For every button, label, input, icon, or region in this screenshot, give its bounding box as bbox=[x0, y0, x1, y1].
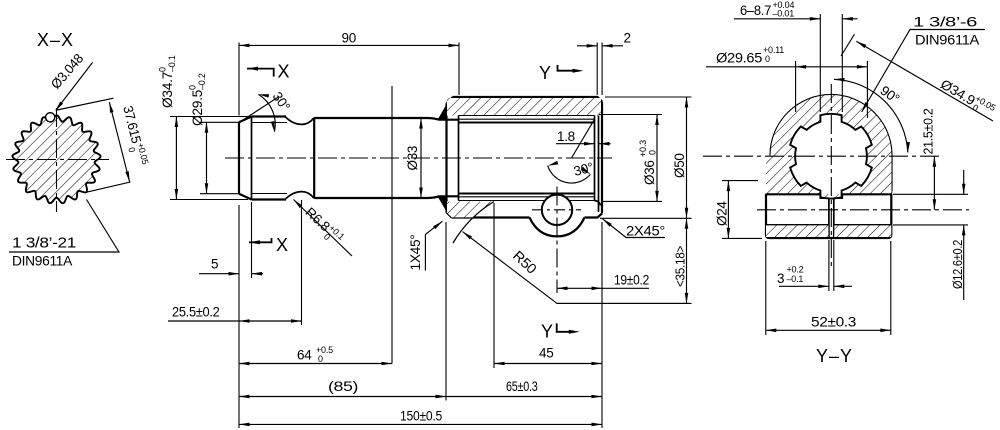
dim dia34.9 bbox=[841, 34, 855, 56]
svg-text:25.5±0.2: 25.5±0.2 bbox=[172, 305, 220, 320]
bore bottom fillet to end face bbox=[595, 201, 601, 206]
dim 150 bbox=[239, 423, 602, 425]
hatch bottom band (bounded by R50 arc) bbox=[447, 202, 494, 218]
svg-text:–0.1: –0.1 bbox=[167, 55, 177, 72]
ext lines main bbox=[239, 43, 602, 116]
svg-text:X: X bbox=[276, 235, 288, 255]
svg-text:X: X bbox=[278, 62, 290, 82]
cross hole bbox=[542, 195, 572, 225]
dim dia29.65 bbox=[796, 61, 868, 118]
svg-text:21.5±0.2: 21.5±0.2 bbox=[922, 108, 936, 154]
svg-text:65±0.3: 65±0.3 bbox=[506, 379, 538, 394]
dim 25.5 bbox=[168, 320, 302, 322]
svg-text:(85): (85) bbox=[328, 379, 358, 394]
svg-text:Ø24: Ø24 bbox=[715, 201, 730, 226]
svg-text:<35.18>: <35.18> bbox=[674, 246, 688, 287]
main centerline bbox=[225, 157, 612, 159]
bore end internal face bbox=[594, 116, 596, 201]
1.8 dim bbox=[556, 143, 611, 145]
30 deg chamfer indicator (left) bbox=[239, 97, 280, 124]
30 deg cone line bbox=[572, 119, 595, 158]
dim 52 bbox=[766, 241, 891, 335]
dim dia34.7 left bbox=[170, 117, 248, 200]
svg-text:Ø33: Ø33 bbox=[405, 146, 420, 171]
svg-text:DIN9611A: DIN9611A bbox=[12, 254, 72, 269]
dim 3 slit bbox=[829, 240, 834, 291]
svg-text:X–X: X–X bbox=[37, 30, 74, 50]
Y-Y centerlines bbox=[703, 155, 941, 157]
flange left face bbox=[445, 103, 447, 213]
svg-text:Ø34.7: Ø34.7 bbox=[160, 72, 175, 108]
shaft spline section outline bbox=[238, 122, 240, 193]
svg-text:2: 2 bbox=[624, 31, 631, 46]
svg-text:Y: Y bbox=[539, 63, 551, 83]
R50 leader bbox=[463, 232, 690, 304]
spline bore lines bbox=[459, 116, 595, 201]
section mark X bottom bbox=[249, 238, 272, 242]
svg-text:+0.2: +0.2 bbox=[787, 265, 804, 275]
svg-text:+0.3: +0.3 bbox=[638, 140, 648, 157]
end face bbox=[601, 102, 603, 214]
svg-text:–0.1: –0.1 bbox=[787, 274, 804, 284]
R6.8 groove bbox=[285, 117, 314, 125]
svg-text:6–8.7: 6–8.7 bbox=[740, 3, 771, 18]
dim dia29.5 left bbox=[200, 122, 240, 193]
measuring pin circle bbox=[46, 113, 55, 122]
hatch top band bbox=[447, 98, 601, 116]
dim dia33 bbox=[420, 118, 422, 198]
dim 45 bbox=[494, 363, 602, 365]
section mark X top bbox=[247, 69, 274, 77]
undercut cones (filled) bbox=[438, 104, 448, 120]
Y-Y hatch dome ring bbox=[766, 95, 892, 199]
svg-text:90: 90 bbox=[342, 31, 356, 46]
dim 90 bbox=[239, 44, 459, 46]
dim dia24 bbox=[722, 181, 762, 239]
30 deg arc bbox=[548, 166, 591, 183]
dim 19 bbox=[557, 287, 649, 289]
dim 2 bbox=[577, 45, 623, 47]
Y-Y spline bore outline bbox=[790, 114, 872, 199]
hole bottom line bbox=[766, 224, 891, 226]
svg-text:Ø50: Ø50 bbox=[672, 153, 687, 178]
svg-text:Y–Y: Y–Y bbox=[816, 346, 853, 366]
1X45 label bbox=[425, 221, 442, 270]
Y-Y hole top line / block top bbox=[766, 193, 891, 195]
dim 65 bbox=[446, 396, 602, 398]
Y-Y hatch bottom band bbox=[766, 225, 891, 237]
svg-text:Ø29.65: Ø29.65 bbox=[716, 51, 762, 66]
svg-text:19±0.2: 19±0.2 bbox=[614, 273, 649, 288]
Y-Y dome outline bbox=[771, 95, 892, 156]
svg-text:0: 0 bbox=[648, 150, 658, 155]
svg-text:Ø36: Ø36 bbox=[642, 160, 657, 185]
svg-text:1.8: 1.8 bbox=[557, 129, 575, 144]
svg-text:1 3/8’-6: 1 3/8’-6 bbox=[913, 14, 978, 30]
dim dia50 bbox=[557, 97, 692, 303]
bore blind face bbox=[458, 116, 460, 201]
svg-text:Ø29.5: Ø29.5 bbox=[190, 90, 205, 126]
svg-text:5: 5 bbox=[211, 257, 218, 272]
X-X centerlines bbox=[6, 108, 109, 212]
R6.8 leader bbox=[294, 200, 353, 257]
dim dia12.6 bbox=[893, 194, 968, 225]
svg-text:3: 3 bbox=[777, 271, 784, 286]
svg-text:–0.2: –0.2 bbox=[197, 73, 207, 90]
svg-text:0: 0 bbox=[188, 85, 198, 90]
spline root lines bbox=[252, 123, 288, 194]
R50 arc bbox=[453, 202, 494, 244]
lug bulge under hole bbox=[530, 218, 585, 237]
Y-Y block sides bbox=[766, 194, 891, 238]
svg-text:Y: Y bbox=[541, 322, 553, 342]
spline end view circle X-X bbox=[12, 115, 100, 203]
svg-text:0: 0 bbox=[158, 67, 168, 72]
shaft dia33 outline bbox=[314, 118, 458, 120]
svg-text:52±0.3: 52±0.3 bbox=[811, 315, 856, 330]
svg-text:DIN9611A: DIN9611A bbox=[915, 32, 980, 48]
dim 64 bbox=[239, 363, 392, 365]
section mark Y top bbox=[558, 65, 578, 71]
90 deg arc bbox=[834, 79, 908, 152]
dim 5 bbox=[199, 273, 263, 275]
section mark Y bottom bbox=[557, 323, 574, 331]
flange OD 50 bbox=[453, 97, 603, 102]
svg-text:–0.01: –0.01 bbox=[773, 9, 795, 19]
svg-text:0: 0 bbox=[765, 54, 770, 64]
dim 6-8.7 bbox=[820, 14, 842, 112]
slit bbox=[829, 198, 834, 238]
dim (85) bbox=[239, 396, 446, 398]
leader dia 3.048 bbox=[56, 62, 93, 110]
svg-text:150±0.5: 150±0.5 bbox=[400, 409, 442, 424]
svg-text:64: 64 bbox=[297, 348, 312, 363]
svg-text:45: 45 bbox=[539, 346, 553, 361]
dim 37.615 bbox=[57, 98, 114, 110]
dim dia36 bbox=[599, 115, 662, 202]
dim 21.5 bbox=[933, 156, 935, 210]
2X45 label bbox=[603, 219, 666, 238]
dim (35.18) bbox=[686, 218, 688, 303]
svg-text:Ø12.6±0.2: Ø12.6±0.2 bbox=[951, 240, 965, 289]
svg-text:1X45°: 1X45° bbox=[408, 235, 423, 271]
svg-text:2X45°: 2X45° bbox=[626, 224, 665, 239]
svg-text:1 3/8’-21: 1 3/8’-21 bbox=[12, 236, 76, 252]
svg-text:0: 0 bbox=[318, 354, 323, 364]
bottom slot to slit steps bbox=[820, 194, 842, 198]
